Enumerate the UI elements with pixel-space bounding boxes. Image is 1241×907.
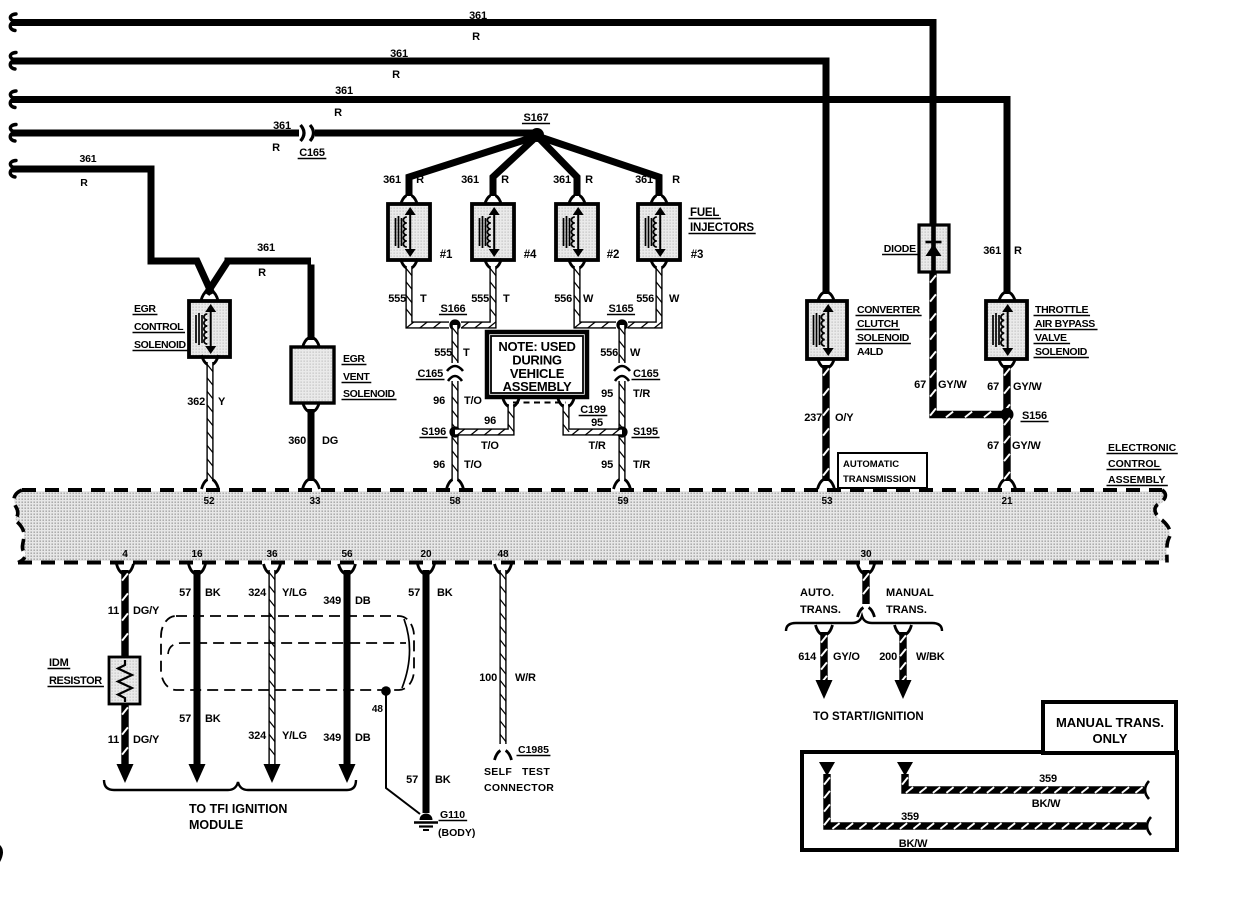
svg-text:GY/W: GY/W xyxy=(1013,381,1042,393)
svg-text:W/R: W/R xyxy=(515,672,536,684)
label FUEL INJECTORS xyxy=(689,207,756,234)
wire 361-R feed 1 (to diode) xyxy=(10,10,933,225)
svg-text:96: 96 xyxy=(484,415,496,427)
ECA pin 4 xyxy=(122,549,128,560)
svg-text:BK: BK xyxy=(205,587,221,599)
svg-text:TO START/IGNITION: TO START/IGNITION xyxy=(813,711,924,723)
scan artifact left edge xyxy=(0,845,3,862)
svg-text:BK/W: BK/W xyxy=(1032,798,1061,810)
svg-text:200: 200 xyxy=(879,651,897,663)
svg-text:O/Y: O/Y xyxy=(835,412,854,424)
svg-text:FUEL: FUEL xyxy=(690,207,719,219)
svg-text:ELECTRONIC: ELECTRONIC xyxy=(1108,442,1177,454)
svg-text:S165: S165 xyxy=(609,303,634,315)
diode xyxy=(882,225,949,272)
svg-text:555: 555 xyxy=(471,293,489,305)
svg-text:S196: S196 xyxy=(421,426,446,438)
note box (used during vehicle assembly) xyxy=(487,332,587,397)
svg-text:361: 361 xyxy=(383,174,401,186)
wire 361-R to injector 1 xyxy=(383,136,537,205)
svg-text:52: 52 xyxy=(203,496,215,507)
svg-text:SOLENOID: SOLENOID xyxy=(1035,346,1088,358)
svg-text:361: 361 xyxy=(80,153,97,165)
ECA pin 21 xyxy=(1001,496,1013,507)
svg-text:359: 359 xyxy=(901,811,919,823)
wire 67-GY/W S156 to ECA xyxy=(987,415,1041,490)
splice S195 xyxy=(616,426,659,438)
svg-text:95: 95 xyxy=(591,417,603,429)
ECA pin 30 xyxy=(860,549,872,560)
svg-text:361: 361 xyxy=(553,174,571,186)
svg-text:CONNECTOR: CONNECTOR xyxy=(484,782,554,794)
svg-text:Y: Y xyxy=(218,396,226,408)
wire 361-R to injector 4 xyxy=(461,136,537,205)
svg-text:SOLENOID: SOLENOID xyxy=(343,388,395,400)
svg-text:MANUAL TRANS.: MANUAL TRANS. xyxy=(1056,715,1164,730)
svg-text:DIODE: DIODE xyxy=(884,243,916,255)
wire 361-R feed 2 (to converter clutch solenoid) xyxy=(10,48,826,294)
terminal 59 connector xyxy=(614,480,631,490)
wire from node 48 to ground xyxy=(386,695,420,814)
wire 361-R label (throttle branch) xyxy=(983,245,1022,257)
dashed link under note box xyxy=(513,402,566,404)
svg-text:67: 67 xyxy=(914,379,926,391)
svg-text:DG: DG xyxy=(322,435,338,447)
svg-text:57: 57 xyxy=(406,774,418,786)
ground G110 xyxy=(414,809,475,839)
connector C165 (right) xyxy=(614,366,660,381)
wire 237-O/Y xyxy=(804,358,854,489)
wire 556-W to C165 xyxy=(600,325,641,363)
svg-text:362: 362 xyxy=(187,396,205,408)
ECA pin 48 xyxy=(497,549,509,560)
svg-text:AIR BYPASS: AIR BYPASS xyxy=(1035,318,1095,330)
svg-text:CONTROL: CONTROL xyxy=(1108,458,1160,470)
wire 95 branch to C199 xyxy=(558,397,623,452)
svg-text:361: 361 xyxy=(983,245,1001,257)
splice S165 xyxy=(607,303,635,331)
svg-text:361: 361 xyxy=(335,85,353,97)
svg-text:324: 324 xyxy=(248,587,267,599)
svg-text:556: 556 xyxy=(600,347,618,359)
fuel injector #1 xyxy=(388,204,453,261)
svg-text:555: 555 xyxy=(434,347,452,359)
svg-text:67: 67 xyxy=(987,440,999,452)
svg-text:TRANS.: TRANS. xyxy=(886,604,927,616)
svg-text:C199: C199 xyxy=(580,404,606,416)
svg-text:33: 33 xyxy=(309,496,321,507)
svg-text:349: 349 xyxy=(323,595,341,607)
wire 57-BK pin 20 to ground xyxy=(406,564,453,813)
label ELECTRONIC CONTROL ASSEMBLY xyxy=(1107,442,1178,486)
converter clutch solenoid xyxy=(807,293,922,360)
wire 67-GY/W from diode to S156 xyxy=(914,272,1003,417)
label TO START/IGNITION xyxy=(813,711,924,723)
svg-text:56: 56 xyxy=(341,549,353,560)
wire 349-DB pin 56 xyxy=(323,564,371,783)
svg-text:EGR: EGR xyxy=(134,303,156,315)
svg-text:SELF: SELF xyxy=(484,766,512,778)
svg-text:C165: C165 xyxy=(418,368,444,380)
svg-text:237: 237 xyxy=(804,412,822,424)
svg-text:48: 48 xyxy=(497,549,509,560)
svg-text:11: 11 xyxy=(108,605,119,617)
wire 361-R to injector 3 xyxy=(537,136,680,205)
svg-text:BK/W: BK/W xyxy=(899,838,928,850)
fuel injector #3 xyxy=(638,204,703,261)
wire 100-W/R pin 48 (self test) xyxy=(479,564,554,794)
wire 67-GY/W throttle to S156 xyxy=(987,358,1042,415)
ECA pin 33 xyxy=(309,496,321,507)
ECA pin 59 xyxy=(617,496,629,507)
fuel injector #2 xyxy=(556,204,619,261)
svg-text:R: R xyxy=(258,267,266,279)
svg-text:556: 556 xyxy=(554,293,572,305)
svg-text:W: W xyxy=(669,293,680,305)
svg-text:MANUAL: MANUAL xyxy=(886,587,934,599)
svg-text:361: 361 xyxy=(257,242,275,254)
svg-text:W: W xyxy=(583,293,594,305)
svg-text:ASSEMBLY: ASSEMBLY xyxy=(503,379,572,394)
svg-text:DB: DB xyxy=(355,595,371,607)
svg-text:W/BK: W/BK xyxy=(916,651,945,663)
svg-text:SOLENOID: SOLENOID xyxy=(857,332,910,344)
svg-text:CONTROL: CONTROL xyxy=(134,321,184,333)
svg-text:48: 48 xyxy=(372,704,384,715)
wire pin 30 stub xyxy=(800,564,934,617)
svg-text:R: R xyxy=(416,174,424,186)
brace trans options xyxy=(786,616,942,631)
wire 96 branch to note box xyxy=(455,397,520,452)
svg-text:S166: S166 xyxy=(441,303,466,315)
svg-text:57: 57 xyxy=(408,587,420,599)
svg-text:T/O: T/O xyxy=(464,459,482,471)
svg-text:555: 555 xyxy=(388,293,406,305)
svg-text:R: R xyxy=(1014,245,1022,257)
ECA pin 58 xyxy=(449,496,461,507)
svg-text:#2: #2 xyxy=(607,249,619,261)
svg-text:T/R: T/R xyxy=(633,459,650,471)
wire 361-R to injector 2 xyxy=(537,136,593,205)
manual trans only box xyxy=(1043,702,1176,753)
svg-text:59: 59 xyxy=(617,496,629,507)
svg-text:ONLY: ONLY xyxy=(1093,731,1128,746)
svg-text:C1985: C1985 xyxy=(518,744,549,756)
svg-text:TRANSMISSION: TRANSMISSION xyxy=(843,474,916,485)
svg-text:R: R xyxy=(334,107,342,119)
svg-text:RESISTOR: RESISTOR xyxy=(49,675,102,687)
svg-text:95: 95 xyxy=(601,459,613,471)
wire 360-DG xyxy=(288,402,338,489)
svg-text:361: 361 xyxy=(469,10,487,22)
svg-text:T: T xyxy=(503,293,510,305)
wire 359-BK/W upper xyxy=(897,762,1149,810)
svg-text:361: 361 xyxy=(461,174,479,186)
svg-text:DG/Y: DG/Y xyxy=(133,605,160,617)
wire 11-DG/Y pin 4 xyxy=(108,564,160,783)
connector C165 (left) xyxy=(416,366,463,381)
svg-text:361: 361 xyxy=(273,120,291,132)
svg-text:GY/W: GY/W xyxy=(938,379,967,391)
ECA pin 36 xyxy=(266,549,278,560)
connector C165 (inline on feed 4) xyxy=(298,125,327,159)
ECA pin 20 xyxy=(420,549,432,560)
harness sleeve (dashed) xyxy=(161,616,414,690)
svg-text:S156: S156 xyxy=(1022,410,1047,422)
wire 324-Y/LG pin 36 xyxy=(248,564,307,783)
svg-text:T/R: T/R xyxy=(633,388,650,400)
svg-text:ASSEMBLY: ASSEMBLY xyxy=(1108,474,1165,486)
svg-text:AUTO.: AUTO. xyxy=(800,587,834,599)
svg-text:R: R xyxy=(472,31,480,43)
wire 361-R feed 4 (to S167) xyxy=(10,120,537,154)
wire 614-GY/O xyxy=(798,625,860,699)
splice S167 xyxy=(522,112,550,142)
svg-text:67: 67 xyxy=(987,381,999,393)
wire 555-T injector 1 xyxy=(388,259,449,329)
svg-text:VENT: VENT xyxy=(343,371,370,383)
terminal 58 connector xyxy=(447,480,464,490)
svg-text:GY/W: GY/W xyxy=(1012,440,1041,452)
brace TO TFI IGNITION MODULE xyxy=(104,780,356,832)
svg-text:Y/LG: Y/LG xyxy=(282,587,307,599)
svg-text:556: 556 xyxy=(636,293,654,305)
svg-text:BK: BK xyxy=(437,587,453,599)
svg-text:TO TFI IGNITION: TO TFI IGNITION xyxy=(189,802,287,816)
wire 555-T injector 4 xyxy=(461,259,510,329)
svg-text:R: R xyxy=(672,174,680,186)
wire 556-W injector 3 xyxy=(627,259,680,329)
svg-text:BK: BK xyxy=(205,713,221,725)
svg-text:Y/LG: Y/LG xyxy=(282,730,307,742)
svg-text:S195: S195 xyxy=(633,426,658,438)
svg-text:IDM: IDM xyxy=(49,657,69,669)
svg-text:96: 96 xyxy=(433,459,445,471)
svg-text:58: 58 xyxy=(449,496,461,507)
svg-text:EGR: EGR xyxy=(343,353,365,365)
svg-text:DB: DB xyxy=(355,732,371,744)
wire 361-R branch to EGR vent solenoid xyxy=(207,242,312,340)
ECA pin 56 xyxy=(341,549,353,560)
svg-text:TEST: TEST xyxy=(522,766,550,778)
svg-text:T/O: T/O xyxy=(464,395,482,407)
svg-text:#3: #3 xyxy=(691,249,703,261)
svg-text:T/O: T/O xyxy=(481,440,499,452)
wire 200-W/BK xyxy=(879,625,945,699)
svg-text:S167: S167 xyxy=(524,112,549,124)
svg-text:96: 96 xyxy=(433,395,445,407)
wire 555-T to C165 xyxy=(434,325,470,363)
svg-text:C165: C165 xyxy=(633,368,659,380)
svg-text:53: 53 xyxy=(821,496,833,507)
wire 361-R feed 5 (to EGR solenoids) xyxy=(10,153,212,294)
svg-text:30: 30 xyxy=(860,549,872,560)
EGR control solenoid xyxy=(133,291,231,357)
ECA pin 16 xyxy=(191,549,203,560)
wire 362-Y xyxy=(187,355,226,489)
svg-text:36: 36 xyxy=(266,549,278,560)
svg-text:C165: C165 xyxy=(299,147,325,159)
svg-text:100: 100 xyxy=(479,672,497,684)
svg-text:AUTOMATIC: AUTOMATIC xyxy=(843,459,899,470)
svg-text:MODULE: MODULE xyxy=(189,818,243,832)
svg-text:359: 359 xyxy=(1039,773,1057,785)
svg-text:INJECTORS: INJECTORS xyxy=(690,222,754,234)
svg-text:349: 349 xyxy=(323,732,341,744)
svg-text:GY/O: GY/O xyxy=(833,651,860,663)
node 48 (splice on harness) xyxy=(372,686,391,715)
splice S196 xyxy=(419,426,460,438)
svg-text:21: 21 xyxy=(1001,496,1013,507)
svg-text:BK: BK xyxy=(435,774,451,786)
svg-text:95: 95 xyxy=(601,388,613,400)
svg-text:A4LD: A4LD xyxy=(857,346,884,358)
svg-text:SOLENOID: SOLENOID xyxy=(134,339,186,351)
ECA pin 52 xyxy=(203,496,215,507)
IDM resistor xyxy=(48,657,141,704)
svg-text:G110: G110 xyxy=(440,809,465,821)
svg-text:360: 360 xyxy=(288,435,306,447)
ECA connector band xyxy=(14,490,1170,563)
svg-text:R: R xyxy=(501,174,509,186)
wire 96-T/O to S196 xyxy=(433,381,482,481)
throttle air bypass valve solenoid xyxy=(986,293,1098,360)
svg-text:VALVE: VALVE xyxy=(1035,332,1067,344)
splice S166 xyxy=(439,303,467,331)
splice S156 xyxy=(1001,408,1049,422)
EGR vent solenoid xyxy=(291,338,397,403)
svg-text:T: T xyxy=(420,293,427,305)
wire 361-R feed 3 (to throttle air bypass solenoid) xyxy=(10,85,1007,294)
fuel injector #4 xyxy=(472,204,537,261)
ECA pin 53 xyxy=(821,496,833,507)
svg-text:#4: #4 xyxy=(524,249,537,261)
svg-text:4: 4 xyxy=(122,549,128,560)
svg-text:361: 361 xyxy=(635,174,653,186)
wire 556-W injector 2 xyxy=(554,259,616,329)
wire 57-BK pin 16 xyxy=(179,564,221,783)
svg-text:CLUTCH: CLUTCH xyxy=(857,318,898,330)
big box (manual trans circuit) xyxy=(802,752,1177,850)
svg-text:R: R xyxy=(392,69,400,81)
svg-text:16: 16 xyxy=(191,549,203,560)
svg-text:57: 57 xyxy=(179,713,191,725)
svg-text:W: W xyxy=(630,347,641,359)
svg-text:57: 57 xyxy=(179,587,191,599)
svg-text:614: 614 xyxy=(798,651,817,663)
svg-text:20: 20 xyxy=(420,549,432,560)
svg-text:324: 324 xyxy=(248,730,267,742)
svg-text:11: 11 xyxy=(108,734,119,746)
svg-text:CONVERTER: CONVERTER xyxy=(857,304,921,316)
wire 359-BK/W lower xyxy=(819,762,1151,850)
svg-text:T/R: T/R xyxy=(588,440,605,452)
svg-text:R: R xyxy=(272,142,280,154)
svg-text:#1: #1 xyxy=(440,249,453,261)
svg-text:(BODY): (BODY) xyxy=(438,827,475,839)
svg-text:DG/Y: DG/Y xyxy=(133,734,160,746)
svg-text:R: R xyxy=(80,177,88,189)
wire 95-T/R to S195 xyxy=(601,381,650,481)
svg-text:R: R xyxy=(585,174,593,186)
svg-text:361: 361 xyxy=(390,48,408,60)
svg-text:TRANS.: TRANS. xyxy=(800,604,841,616)
svg-text:T: T xyxy=(463,347,470,359)
automatic transmission box xyxy=(838,453,927,488)
svg-text:THROTTLE: THROTTLE xyxy=(1035,304,1089,316)
